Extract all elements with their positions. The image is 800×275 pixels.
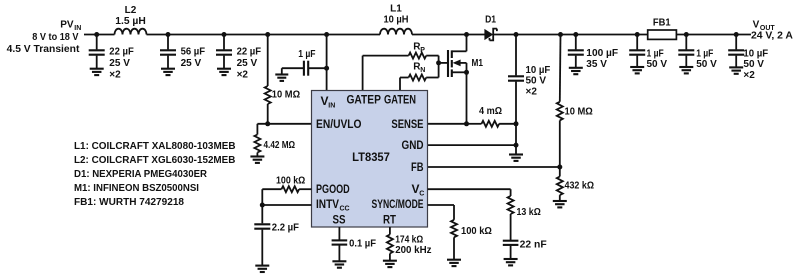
svg-text:50 V: 50 V [526,76,547,87]
wire rail to 10uF [515,35,517,76]
resistor RN [409,75,427,81]
capacitor 10uF out x2 [728,50,744,54]
wire PGOOD pin [299,188,311,190]
junction rail C-out1 [573,32,578,37]
wire to 100uF [575,35,577,50]
capacitor 22uF input 2 [216,50,232,54]
wire rail to 10M [267,35,269,87]
svg-text:L1: COILCRAFT XAL8080-103MEB: L1: COILCRAFT XAL8080-103MEB [74,141,236,152]
wire SS pin down [338,227,340,240]
resistor 10M fb [557,102,563,121]
wire SENSE pin [428,123,467,125]
ground C-in2 [161,69,175,75]
junction VIN bypass [324,66,329,71]
resistor 100k sync [451,220,457,238]
svg-text:D1: D1 [485,15,496,26]
resistor 4mohm sense [482,121,500,127]
svg-text:SS: SS [333,213,346,227]
svg-text:10 µH: 10 µH [383,14,408,25]
wire M1 drain lead [452,50,467,52]
wire to 1uF out1 [636,35,638,50]
wire GND node to ground [515,145,517,154]
capacitor 1uF VIN bypass [304,61,308,76]
wire 4mohm to cap node [499,123,516,125]
capacitor 22nF [503,241,519,245]
junction rail M1 drain [464,32,469,37]
svg-text:50 V: 50 V [647,59,668,70]
wire to C-in3 [223,35,225,50]
svg-text:10 µF: 10 µF [526,65,551,76]
wire L2 to L1 [147,34,381,36]
wire 1uF out2 to ground [685,56,687,67]
svg-text:25 V: 25 V [237,58,258,69]
capacitor 0.1uF SS [332,240,348,244]
ground C-in1 [90,69,104,75]
svg-text:1 µF: 1 µF [696,49,713,60]
wire to 1uF bypass [309,67,327,69]
wire 10uF out to ground [735,56,737,68]
svg-text:SYNC/MODE: SYNC/MODE [372,197,424,211]
svg-text:P: P [420,47,425,54]
svg-text:24 V, 2 A: 24 V, 2 A [751,31,793,42]
wire rail to 10M fb [559,35,562,102]
ground 10uF out [729,67,743,73]
resistor RP [409,53,427,59]
svg-text:1 µF: 1 µF [647,49,664,60]
svg-text:L2: COILCRAFT XGL6030-152MEB: L2: COILCRAFT XGL6030-152MEB [74,155,235,166]
svg-text:174 kΩ: 174 kΩ [395,234,423,245]
wire M1 drain to rail [466,35,468,52]
wire EN/UVLO pin [257,123,311,125]
wire 22nF to ground [510,246,512,259]
wire 13k to 22nF [510,214,512,240]
wire VC pin right [428,188,511,190]
ground 4.42M [250,157,264,163]
svg-text:56 µF: 56 µF [181,47,206,58]
svg-text:4.5 V Transient: 4.5 V Transient [7,44,80,55]
svg-text:GATEP: GATEP [346,92,381,106]
svg-text:25 V: 25 V [181,58,202,69]
svg-text:13 kΩ: 13 kΩ [517,207,541,218]
svg-text:V: V [753,19,760,30]
wire GATEN to RN [400,77,409,79]
svg-text:L1: L1 [390,3,402,14]
svg-text:M1: M1 [472,58,484,69]
svg-text:×2: ×2 [109,70,121,81]
junction GND pin node [514,143,519,148]
capacitor 1uF out2 [678,50,694,54]
wire SYNC down [453,205,455,220]
svg-text:FB: FB [411,160,424,174]
wire to M1 gate [439,62,448,64]
wire 100k to INTVCC node [261,189,263,205]
wire to 1uF out2 [685,35,687,50]
wire gate node vertical [438,56,440,78]
junction EN node [265,121,270,126]
junction rail R-uvlo-top [265,32,270,37]
wire 10uF to sense node [515,82,517,124]
capacitor 2.2uF INTVCC [254,224,270,228]
svg-text:22 µF: 22 µF [237,47,262,58]
svg-text:×2: ×2 [237,70,249,81]
svg-text:D1: NEXPERIA PMEG4030ER: D1: NEXPERIA PMEG4030ER [74,169,208,180]
wire 4.42M to ground [256,153,258,157]
ferrite bead FB1 [648,30,677,39]
capacitor 100uF 35V [568,50,584,54]
wire 10M to EN node [267,104,269,124]
diode D1 [484,29,493,40]
junction M1 source-body [464,70,469,75]
wire 432k to ground [559,195,561,201]
svg-text:2.2 µF: 2.2 µF [272,223,299,234]
wire M1 body lead [460,62,467,64]
svg-text:M1: INFINEON BSZ0500NSI: M1: INFINEON BSZ0500NSI [74,183,199,194]
wire RT pin down [389,227,391,235]
svg-text:FB1: FB1 [653,18,671,29]
wire 2.2uF to ground [261,230,263,266]
wire SYNC pin right [428,204,455,206]
wire 1uF bypass ground stub [281,68,283,74]
wire RP to gate node [426,55,438,57]
svg-text:22 nF: 22 nF [520,239,547,250]
wire GATEP to RP [363,55,409,57]
junction SENSE-source [464,121,469,126]
junction gate node [436,60,441,65]
wire VC down [510,189,512,196]
ground 1uF bypass [275,75,288,81]
resistor 13k [508,196,514,214]
svg-text:200 kHz: 200 kHz [395,245,431,256]
wire 0.1uF to ground [338,246,340,262]
svg-text:N: N [420,67,425,74]
junction sense cap node [514,121,519,126]
svg-text:RT: RT [383,213,397,227]
wire 10M fb to FB node [559,120,561,167]
wire EN to 4.42M [256,124,258,135]
wire GND pin [428,144,517,146]
ground GND pin [509,155,523,161]
junction rail VIN drop [324,32,329,37]
inductor L1 [380,29,412,35]
resistor 174k RT [387,235,393,254]
svg-text:100 kΩ: 100 kΩ [461,226,492,237]
svg-text:8 V to 18 V: 8 V to 18 V [32,32,78,43]
svg-text:1 µF: 1 µF [298,49,315,60]
wire to C-in1 [96,35,98,50]
svg-text:10 MΩ: 10 MΩ [272,90,300,101]
junction rail C-in1 [94,32,99,37]
wire C-in1 to ground [96,56,98,69]
ground 2.2uF [255,266,269,272]
wire D1 cathode to FB1 [493,34,648,36]
svg-text:×2: ×2 [526,87,538,98]
ground 100k sync [447,260,461,266]
wire 174k to ground [389,254,391,261]
svg-text:25 V: 25 V [109,58,130,69]
resistor 100k pgood [282,186,300,192]
junction rail C-in2 [166,32,171,37]
ground RT [383,261,397,267]
svg-text:SENSE: SENSE [391,117,423,131]
wire INTVCC pin [262,204,311,206]
wire 100uF to ground [575,56,577,68]
svg-text:FB1: WURTH 74279218: FB1: WURTH 74279218 [74,197,184,208]
svg-text:10 µF: 10 µF [743,49,768,60]
wire GATEP pin up [362,56,364,91]
svg-text:EN/UVLO: EN/UVLO [316,117,362,131]
junction rail FB1 left [635,32,640,37]
svg-text:432 kΩ: 432 kΩ [565,181,595,192]
svg-text:4.42 MΩ: 4.42 MΩ [264,140,296,151]
wire L1 to D1 anode [412,34,485,36]
junction rail D1 cathode [514,32,519,37]
wire to 10uF out [735,35,737,50]
junction FB node [557,165,562,170]
inductor L2 [115,29,147,35]
svg-text:100 kΩ: 100 kΩ [276,176,305,187]
ground 22nF [504,259,518,265]
capacitor 1uF out1 [629,50,645,54]
svg-text:L2: L2 [125,5,137,16]
svg-text:INTV: INTV [316,197,339,211]
ground 1uF out1 [630,67,644,73]
wire M1 source lead [452,71,467,73]
wire PVIN to L2 [84,34,115,36]
resistor 432k [557,177,563,196]
wire RN to gate node [426,77,438,79]
wire GATEN pin up [399,78,401,91]
svg-text:4 mΩ: 4 mΩ [479,106,502,117]
ground C-in3 [217,69,231,75]
wire 1uF out1 to ground [636,56,638,67]
svg-text:PGOOD: PGOOD [316,182,350,196]
svg-text:GND: GND [402,138,424,152]
svg-text:1.5 µH: 1.5 µH [115,16,146,27]
wire C-in2 to ground [167,56,169,69]
svg-text:100 µF: 100 µF [586,48,618,59]
wire C-in3 to ground [223,56,225,69]
svg-text:50 V: 50 V [696,59,717,70]
svg-text:10 MΩ: 10 MΩ [565,107,593,118]
svg-text:50 V: 50 V [743,59,764,70]
wire 100k sync to ground [453,237,455,259]
svg-text:LT8357: LT8357 [352,150,390,164]
wire FB1 to VOUT [676,34,751,36]
ground 1uF out2 [679,67,693,73]
transistor M1 [448,50,452,77]
capacitor 56uF [160,50,176,54]
svg-text:PV: PV [60,20,74,31]
resistor 4.42M [254,135,260,153]
junction rail FB1 right [684,32,689,37]
ground 100uF [569,68,583,74]
op-amp U1 LT8357 body [312,91,428,228]
svg-text:×2: ×2 [743,70,755,81]
wire 100k pgood left [262,188,281,190]
wire M1 source down [466,63,468,124]
wire FB to 432k [559,167,561,177]
svg-text:IN: IN [328,103,335,110]
wire FB pin [428,166,560,168]
svg-text:22 µF: 22 µF [109,47,134,58]
ground SS cap [332,261,346,267]
wire cap node to GND line [515,124,517,145]
wire rail to VIN pin [326,35,328,91]
junction rail C-in3 [222,32,227,37]
junction INTVCC node [260,203,265,208]
wire 1uF to ground symbol [282,67,303,69]
capacitor 22uF input 1 [89,50,105,54]
resistor 10M uvlo [265,86,271,104]
svg-text:35 V: 35 V [586,59,607,70]
capacitor 10uF 50V x2 [508,76,524,80]
junction rail FB divider [558,32,563,37]
svg-text:0.1 µF: 0.1 µF [349,239,376,250]
svg-text:GATEN: GATEN [384,92,416,106]
junction rail C-out4 [734,32,739,37]
wire INTVCC to 2.2uF [261,205,263,223]
ground 432k [553,201,567,207]
wire to C-in2 [167,35,169,50]
